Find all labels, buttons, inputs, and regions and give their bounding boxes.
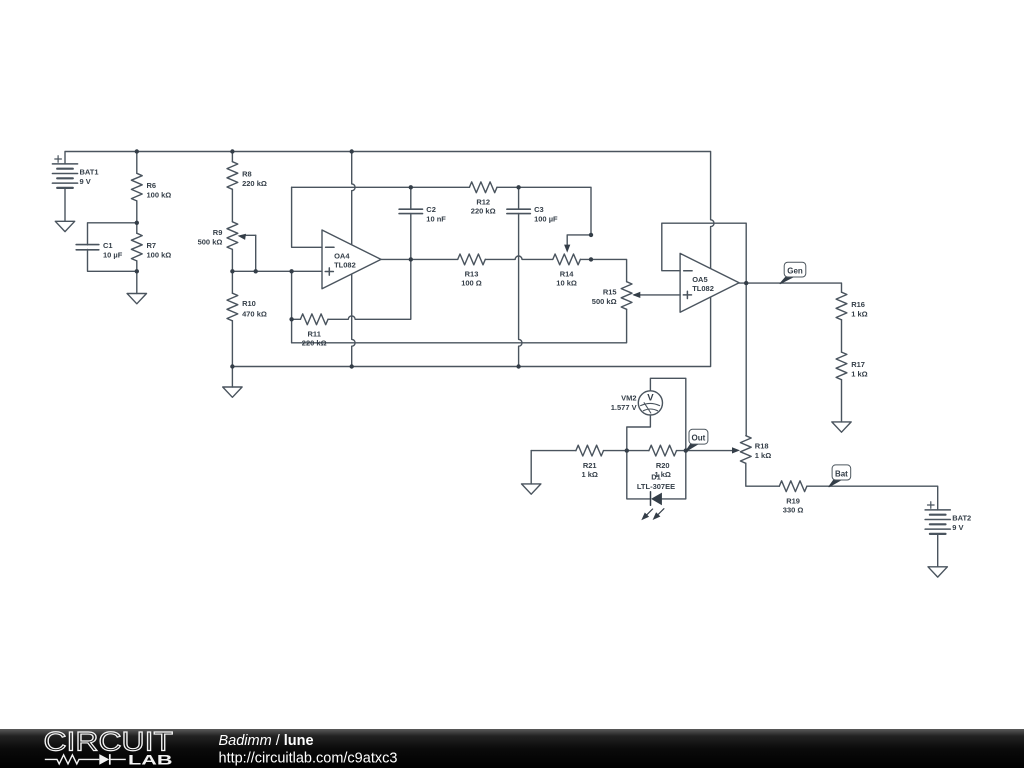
svg-text:LAB: LAB [128,752,173,768]
svg-text:http://circuitlab.com/c9atxc3: http://circuitlab.com/c9atxc3 [219,751,398,767]
svg-text:Badimm / lune: Badimm / lune [219,733,314,749]
